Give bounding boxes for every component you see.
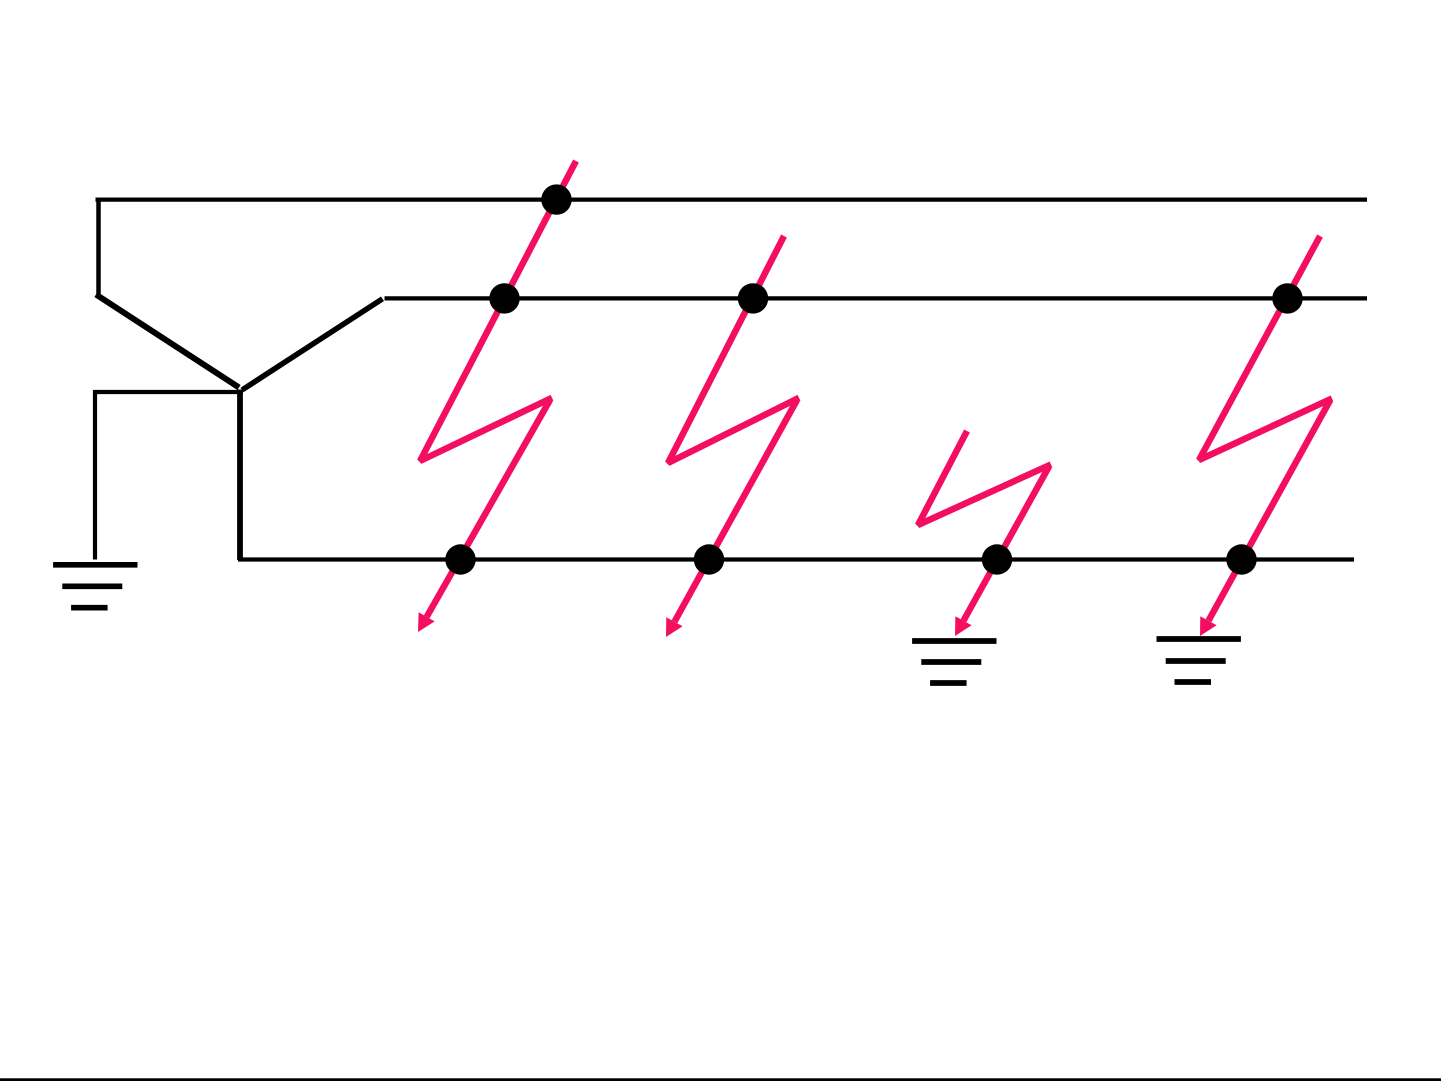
ground (under bolt 4) [1157,639,1241,682]
arrowhead bolt 1 [418,612,435,632]
node dot bolt1 x neutral [445,544,475,574]
wire: middle phase bus line [385,296,1368,300]
lightning bolt 1 (strikes top line) [420,161,576,617]
arrowhead bolt 4 [1200,616,1217,636]
node dot bolt4 x neutral [1226,544,1256,574]
wire: vertical from junction down to neutral line [237,390,243,561]
node dot bolt4 x middle line [1272,283,1302,313]
wire: slanted segment S2 (junction up-right to middle line) [242,299,383,390]
arrowhead bolt 3 [955,616,972,636]
lightning bolt 4 (strikes middle line, to ground) [1199,236,1332,621]
wire: left vertical drop from top line [96,198,101,297]
ground (left, service entrance) [53,565,137,608]
node dot bolt2 x middle line [738,283,768,313]
bottom window border bar [0,1078,1441,1081]
ground (under bolt 3) [912,641,996,683]
node dot on top line [541,184,571,214]
wire: top phase bus line [96,198,1368,202]
node dot bolt3 x neutral [982,544,1012,574]
lightning bolt 2 (strikes middle line) [668,236,799,622]
wire: slanted segment S1 (down-right to junction) [96,295,239,388]
arrowhead bolt 2 [666,617,683,637]
node dot bolt1 x middle line [489,283,519,313]
wire: short horizontal ground tie [93,390,243,394]
wire: vertical to left ground [93,390,97,560]
node dot bolt2 x neutral [694,544,724,574]
wire: bottom neutral bus line [238,557,1354,561]
lightning bolt 3 (strikes neutral, to ground) [918,431,1051,621]
